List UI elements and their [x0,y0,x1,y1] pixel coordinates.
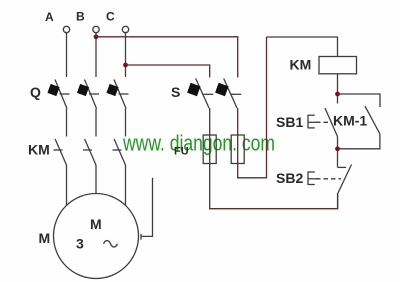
svg-text:KM-1: KM-1 [333,113,367,129]
svg-text:SB2: SB2 [276,170,303,186]
svg-text:S: S [171,84,180,100]
svg-text:Q: Q [30,84,41,100]
svg-text:KM: KM [28,142,50,158]
svg-text:SB1: SB1 [276,114,303,130]
svg-text:B: B [76,9,85,23]
svg-text:M: M [39,230,51,246]
svg-text:A: A [45,10,54,24]
svg-text:C: C [106,9,115,23]
svg-text:www. diangon. com: www. diangon. com [122,131,275,156]
svg-text:FU: FU [174,146,189,158]
svg-text:3: 3 [76,236,84,252]
svg-text:KM: KM [290,57,312,73]
svg-text:M: M [90,216,102,232]
